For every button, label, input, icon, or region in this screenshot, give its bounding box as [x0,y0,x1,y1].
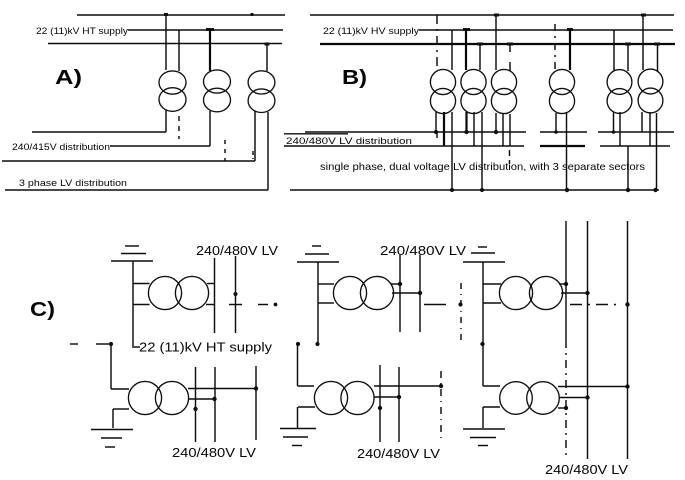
node: dot on bus1 bottom [193,407,197,411]
wire: B-T4 secondary long lead to LV3 [566,112,568,190]
ground: top earth bar mid [121,253,146,255]
svg-text:3 phase LV distribution: 3 phase LV distribution [19,178,127,189]
wire: B LV line1 sector3 [598,131,674,133]
node: dot on bus2 [233,292,237,296]
node: B-T6 junction on line3 [654,43,660,46]
transformer C1a primary winding [148,276,181,309]
svg-text:22 (11)kV HT supply: 22 (11)kV HT supply [36,26,128,37]
node: dot on bus3 [254,386,258,390]
node: dot on bus2 [418,291,422,295]
transformer B-T6 primary winding [638,69,663,94]
svg-text:22 (11)kV HT supply: 22 (11)kV HT supply [139,340,272,355]
node: HT dot (right) [480,342,484,346]
node: dot on LV3 at 628 [626,188,630,192]
wire: LV bus 3 (right) [627,221,629,459]
transformer C2b secondary winding [341,381,374,414]
node: dot of dash-dot [458,302,462,306]
wire: HT phase line 2 (B) [419,29,673,31]
wire: B-T2 secondary lead to LV1 [465,112,467,132]
wire: B-T5 link LV2 to LV3 [627,146,629,190]
wire: HT line segment [96,343,112,345]
wire: secondary stub lower [206,304,215,306]
node: T1 primary junction on line1 [164,13,168,16]
wire: secondary stub to bus2 [392,292,420,294]
node: dot on bus2 bottom [212,397,216,401]
ground: top earth (right) bar short [478,246,487,248]
wire: B-T2 secondary lead to LV2 [473,112,475,146]
wire: B-T6 primary lead a [642,15,644,70]
wire: HT phase line 1 (B) [310,14,674,16]
wire: primary tap lower [133,304,150,306]
wire: secondary top lead to bus3 [558,386,628,388]
wire: B-T4 primary lead a (dash-dot) [554,24,556,70]
wire: primary tap lower [483,302,501,304]
wire: bottom primary tap lower [113,408,129,410]
wire: B-T3 secondary lead to LV2 [502,113,504,146]
wire: T3 secondary lead to LV line 3 [254,111,256,161]
svg-text:240/480V LV: 240/480V LV [357,446,440,461]
wire: T2 secondary lead [209,111,211,146]
wire: HT phase line 2 (A) [128,29,283,31]
node: dot on bus2 [585,291,589,295]
wire: LV bus 2 (left bottom) [214,367,216,442]
transformer B-T2 secondary winding [461,88,486,113]
ground: bottom earth bar short [292,445,302,447]
wire: secondary top lead to dash bus [374,385,441,387]
transformer C1a secondary winding [175,276,208,309]
wire: T2 secondary dashed stub [224,140,226,161]
node: dot on bus1 [564,282,568,286]
wire: LV bus 1 (middle bottom) [379,365,381,442]
node: dot of dash-dot continuation [274,303,278,307]
wire: primary tap lower [318,302,334,304]
wire: B-T3 secondary lead c [509,114,511,146]
wire: B-T4 primary lead b [569,30,571,70]
wire: B-T6 primary lead b [657,44,659,72]
node: dot on bus3 [625,302,629,306]
wire: T1 secondary lead [165,110,167,132]
node: B-T4 junction on line2 [567,28,573,31]
wire: stem to bottom earth [112,409,114,428]
wire: B-T6 secondary long lead to LV3 [656,113,658,190]
svg-text:240/480V LV: 240/480V LV [545,462,628,477]
svg-text:C): C) [30,299,55,321]
node: T2 primary junction on line2 [206,28,214,31]
wire: bottom primary tap upper [483,385,500,387]
transformer B-T1 primary winding [430,69,455,94]
wire: B-T1 secondary lead to LV2 [443,112,445,146]
ground: top earth bar long [297,261,339,263]
wire: T1 secondary dashed stub [178,116,180,139]
transformer T3 secondary winding [248,89,275,113]
wire: T2 primary lead [209,30,211,71]
wire: B-T2 secondary long lead to LV3 [481,112,483,190]
ground: top earth (middle) bar short [312,245,321,247]
transformer C3b primary winding [500,382,533,415]
node: HT junction dot left [109,342,113,346]
wire: B-T4 secondary lead to LV1 [555,113,557,132]
wire: bottom primary tap lower [483,406,500,408]
wire: B-T1 secondary long lead to LV3 [451,112,453,190]
wire: scan dash artifact below T3 left (A) [252,151,254,159]
wire: LV bus 2 (left top) [235,256,237,333]
node: B-T2 junction on line2 [463,28,470,31]
wire: B-T2 primary lead a [465,30,467,70]
wire: dash-dot lead to bus3 [570,304,620,306]
ground: bottom earth bar long [280,428,316,430]
node: dot on bus1 bottom [564,406,568,410]
wire: LV bus 1 (right) upper solid [565,221,567,340]
wire: earth stem down through HT to bottom [482,262,484,386]
ground: top earth bar long [111,260,153,262]
wire: secondary mid lead to bus2 [188,398,215,400]
wire: T1 primary lead b [178,30,180,71]
wire: B LV line2 sector1 [284,145,524,147]
ground: bottom earth bar long [91,429,133,431]
wire: LV bus 2 (middle bottom) [398,367,400,442]
svg-text:240/415V distribution: 240/415V distribution [12,142,110,153]
node: B-T6 junction on line1 [641,14,646,17]
wire: earth stem down to primary [132,261,134,346]
transformer C1b secondary winding [155,381,188,414]
wire: tick across bus2 [229,304,242,306]
wire: LV line 3 (A) [2,160,255,162]
node: B-T5 junction on line3 [625,43,631,46]
wire: scan dash below T3 right lead (B) [509,150,511,164]
node: dot on LV3 at 655 [653,188,657,192]
node: HT dot left (middle) [296,342,300,346]
ground: top earth bar long [463,261,505,263]
wire: B-T1 secondary lead to LV1 [435,112,437,132]
node: dot on LV3 at 452 [450,188,454,192]
node: dot on LV1 at 436 [434,130,438,134]
wire: primary tap upper [133,283,150,285]
ground: bottom earth bar mid [470,437,496,439]
wire: LV bus 1 (left top) [214,258,216,333]
wire: secondary stub upper [207,283,215,285]
wire: foot of top vertical before HT label [132,346,140,348]
wire: B-T1 primary lead a (dash-dot from line1) [436,15,438,70]
ground: bottom earth bar mid [101,437,122,439]
wire: HT drop to bottom transformer [110,344,112,389]
transformer B-T5 secondary winding [607,89,632,114]
wire: dash continuation right [424,304,446,306]
node: dot on LV3 at 567 [565,188,569,192]
transformer C2b primary winding [314,381,347,414]
wire: T1 primary lead a [165,15,167,70]
ground: top earth bar mid [305,253,329,255]
wire: B-T3 primary lead a [495,15,497,70]
wire: dash-dot vertical between groups [460,283,462,345]
wire: B LV line3 [290,189,659,191]
node: B-T3 junction on line3 [507,43,513,46]
wire: B LV line2 sector2 [540,145,585,147]
transformer B-T3 secondary winding [491,88,516,113]
transformer T1 secondary winding [159,88,186,112]
wire: primary tap upper [483,283,501,285]
wire: B-T5 primary lead a [613,30,615,71]
wire: bottom primary tap upper [111,388,129,390]
transformer C3b secondary winding [527,382,560,415]
ground: top earth bar mid [471,252,495,254]
transformer B-T6 secondary winding [638,88,663,113]
transformer C2a secondary winding [360,276,393,309]
transformer B-T1 secondary winding [430,88,455,113]
wire: earth stem down [317,262,319,344]
wire: B LV line1 sector2 [540,131,587,133]
node: dot on bus2 bottom [397,395,401,399]
node: dot on dash bus [439,384,443,388]
wire: B-T5 secondary lead to LV1 [613,112,615,132]
wire: T3 primary lead [266,44,268,72]
node: B-T3 junction on line1 [494,14,499,17]
wire: dash-dot bus 3 (middle bottom) [440,371,442,440]
node: dot on bus3 bottom [625,384,629,388]
wire: secondary stub to bus1 [391,283,400,285]
transformer C3a secondary winding [529,276,562,309]
wire: LV bus 2 (middle top) [419,255,421,332]
node: dot on bus1 bottom [378,406,382,410]
wire: B-T2 primary lead b [479,44,481,70]
ground: bottom earth bar short [478,445,488,447]
wire: HT phase line 3 (A) [48,43,282,45]
wire: HT drop to bottom transformer [297,344,299,386]
wire: dash continuation right [258,304,268,306]
wire: LV bus 3 (left bottom) [255,366,257,440]
wire: HT line dash at far left [70,343,78,345]
wire: secondary mid lead to bus2 [374,396,399,398]
wire: secondary stub to bus1 [559,283,566,285]
wire: HT phase line 1 (A) [77,14,285,16]
wire: B-T3 primary lead b (stub) [509,44,511,52]
node: HT dot right (middle) [315,342,319,346]
wire: B-T6 secondary lead to LV2 [649,112,651,146]
node: dot on bus1 [398,282,402,286]
svg-text:22 (11)kV HV supply: 22 (11)kV HV supply [323,26,419,37]
ground: bottom earth bar long [463,428,505,430]
wire: B-T3 primary lead b lower [509,62,511,71]
transformer C1b primary winding [128,381,161,414]
wire: LV line 4 (A) [5,189,268,191]
wire: LV bus 1 (right) lower dash-dot [565,340,567,459]
wire: B-T6 secondary lead to LV1 [641,112,643,132]
transformer B-T4 primary winding [549,69,574,94]
wire: primary tap upper [318,283,334,285]
node: dot on LV1 at 466.5 [464,130,468,134]
svg-text:240/480V LV: 240/480V LV [196,243,278,258]
transformer T2 secondary winding [204,88,231,112]
wire: duplicated scan stroke above B LV label [284,133,348,135]
node: B-T2 junction on line3 [477,43,483,46]
svg-text:B): B) [342,67,367,89]
transformer B-T4 secondary winding [549,88,574,113]
svg-text:240/480V LV: 240/480V LV [172,445,256,460]
wire: B-T1 primary lead b [451,30,453,70]
wire: LV bus 1 (left bottom) [195,367,197,442]
wire: T3 secondary lead to LV line 4 [267,112,269,190]
node: dot on LV3 at 482 [480,188,484,192]
svg-text:240/480V LV: 240/480V LV [380,243,466,258]
wire: secondary mid lead to bus2 [559,397,588,399]
wire: HT phase line 3 (B) [320,43,675,45]
wire: bottom primary tap lower [298,406,315,408]
node: tick on line1 (scan artifact) [251,13,254,16]
transformer T1 primary winding [159,71,186,94]
wire: secondary stub to bus2 [561,292,588,294]
ground: bottom earth bar mid [283,436,308,438]
wire: secondary top lead to bus3 [188,388,256,390]
transformer C3a primary winding [499,276,532,309]
node: dot on LV1 at 496 [494,130,498,134]
ground: top earth (left group) bar short [125,245,139,247]
wire: bottom primary tap upper [298,385,315,387]
wire: LV line 2 (A) [110,145,210,147]
transformer B-T3 primary winding [491,69,516,94]
ground: bottom earth bar short [105,446,115,448]
node: T3 junction on line3 [265,43,270,46]
transformer B-T5 primary winding [607,70,632,95]
node: dot on LV1 at 556 [554,130,558,134]
node: dot on bus2 bottom [585,395,589,399]
wire: stem to bottom earth [482,407,484,428]
wire: LV bus 1 (middle top) [399,255,401,332]
wire: LV line 1 (A) [32,131,166,133]
wire: B-T3 secondary lead to LV1 [495,113,497,132]
wire: B-T5 primary lead b [627,44,629,71]
wire: LV bus 2 (right) [587,221,589,459]
transformer T2 primary winding [204,70,231,93]
svg-text:A): A) [55,67,82,89]
transformer B-T2 primary winding [461,69,486,94]
transformer T3 primary winding [248,71,275,94]
wire: B-T5 secondary lead to LV2 [619,112,621,146]
transformer C2a primary winding [333,276,366,309]
node: dot on LV1 at 613.5 [612,130,616,134]
wire: secondary stub to bus1 [558,407,566,409]
svg-text:single phase, dual voltage LV: single phase, dual voltage LV distributi… [320,162,645,173]
wire: stem to bottom earth [297,407,299,428]
wire: scan dash below line2 at 437 (B) [436,133,438,141]
wire: B LV line2 sector3 [600,145,670,147]
wire: B LV line1 sector1 [305,131,526,133]
